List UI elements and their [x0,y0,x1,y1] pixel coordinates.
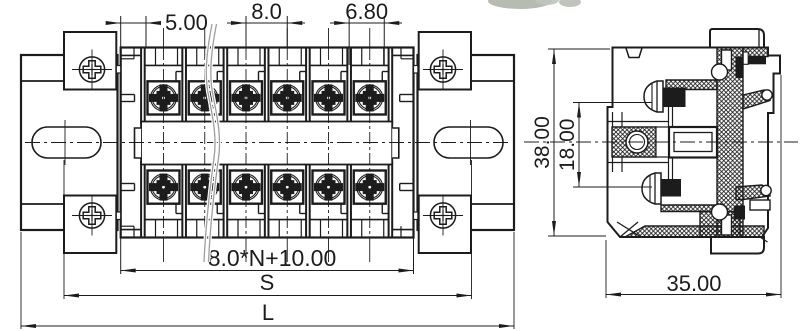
din rail foot [711,237,768,254]
black blob top-right [736,57,744,79]
section centerline [524,141,798,143]
terminal block main body [121,48,414,238]
upper hook tip [762,90,772,100]
terminal screw top 5 [313,81,345,114]
right mounting bracket body [418,55,515,230]
top flange [710,29,764,48]
pad screw top-left [72,50,112,90]
svg-text:8.0*N+10.00: 8.0*N+10.00 [208,245,337,271]
terminal screw bottom 3 [230,171,262,204]
terminal screw top 6 [354,81,386,114]
svg-text:S: S [260,270,275,295]
top-left notch [626,48,642,58]
seal top [664,88,686,108]
right oval vertical centerline [470,120,472,165]
right oval slot [434,127,503,158]
hatch bottom band [625,226,764,237]
mounting pad top-right [419,32,471,90]
top flange line [710,30,768,48]
latch slot top [722,50,732,70]
central barrier band [141,122,392,165]
pad connector tabs [116,66,418,220]
terminal screw bottom 1 [148,171,180,204]
hatch upper hook arm [743,90,770,109]
section body outline [608,48,781,238]
terminal screw top 4 [271,81,303,114]
right end section lines [392,48,413,238]
mounting pad bottom-left [64,196,116,254]
lower hook step [750,200,770,210]
bottom-left notch [617,222,641,237]
svg-text:L: L [262,300,274,325]
hatch bottom region [700,212,740,238]
lower hook tip [761,185,771,195]
dim 5.00 [106,10,208,48]
terminal screw top 1 [148,81,180,114]
band left end step [135,128,142,158]
clamp gap [656,127,669,157]
screw dome top [644,81,663,112]
right end tabs [400,95,414,191]
watermark smudge [488,0,581,9]
latch slot bottom [722,215,732,235]
right bracket step lines [471,81,514,204]
seal bottom [661,179,681,197]
hatch main column [717,48,743,238]
black bar top-right [748,56,766,64]
pad screw top-right [423,50,463,90]
screw shaft bottom [669,157,673,179]
mounting pad bottom-right [419,196,471,254]
dim 8.0*N+10.00 [121,238,414,275]
screw dome bottom [642,173,661,204]
terminal screw bottom 2 [189,171,221,204]
dim L [21,232,514,329]
latch circle bottom [712,204,728,220]
left oval slot [32,127,101,158]
separator walls top row [141,48,392,125]
svg-text:6.80: 6.80 [345,0,388,24]
terminal centerlines [164,28,370,262]
latch circle top [712,64,728,80]
white slot top-right [743,52,748,64]
pad screw bottom-right [423,196,463,236]
hatch bottom strip [661,205,717,212]
svg-text:38.00: 38.00 [531,116,554,169]
dim S [64,160,472,299]
hatch top strip [666,80,717,90]
separator walls bottom row [141,161,392,238]
terminal screw bottom 6 [354,171,386,204]
terminal screw top 3 [230,81,262,114]
cavity top line [608,121,668,123]
pad screw bottom-left [72,196,112,236]
black blob bottom [734,206,745,220]
svg-text:8.0: 8.0 [251,0,282,24]
horizontal centerline left view [25,142,510,144]
left bracket step lines [21,81,64,204]
break lines [204,24,220,262]
dim 38.00 [531,49,610,236]
svg-text:18.00: 18.00 [556,119,579,172]
cavity bottom line [608,162,668,164]
terminal screw bottom 4 [271,171,303,204]
bottom row shelves and wire slots [145,204,389,238]
cavity walls [613,112,623,172]
svg-text:5.00: 5.00 [165,10,208,35]
terminal screw top 2 [189,81,221,114]
dim 18.00 [556,103,652,188]
clamp box [669,127,717,158]
dim 35.00 [606,75,781,298]
top row shelves and wire slots [145,48,389,82]
terminal screw bottom 5 [313,171,345,204]
left oval vertical centerline [64,120,66,165]
left mounting bracket body [21,55,118,230]
dim 6.80 [330,0,402,65]
hatch lower hook arm [736,185,770,200]
dim 8.0 [227,0,305,47]
left end tabs [121,95,135,191]
left end section lines [121,48,141,238]
mounting pad top-left [64,32,116,90]
clamp screw section [612,127,656,157]
screw shaft top [669,107,673,127]
svg-text:35.00: 35.00 [666,271,721,296]
hatch top bar right [743,48,768,57]
band right end step [392,128,399,158]
